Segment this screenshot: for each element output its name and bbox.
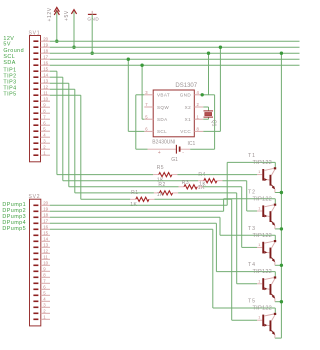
- SV2 pin 18 contact: [33, 217, 38, 219]
- SV2 pin 20 contact: [33, 205, 38, 207]
- SV1 pin 14 contact: [33, 76, 38, 78]
- wire X2 to crystal: [203, 106, 208, 108]
- svg-text:+: +: [158, 150, 161, 156]
- SV1 pin 7 contact: [33, 118, 38, 120]
- SV1 pin 6 stub: [41, 124, 51, 126]
- wire SDA drop: [141, 65, 143, 119]
- SV2 pin 7 stub: [41, 282, 50, 284]
- svg-text:19: 19: [43, 207, 48, 212]
- SV2 pin 3 stub: [41, 306, 50, 308]
- wire R2 right lead: [173, 192, 179, 194]
- svg-text:18: 18: [43, 49, 48, 54]
- wire R4 left lead row: [63, 180, 199, 182]
- crystal Q1: [204, 110, 214, 112]
- svg-text:11: 11: [43, 91, 48, 96]
- SV2 pin 9 stub: [41, 270, 50, 272]
- SV1 pin 5 stub: [41, 130, 51, 132]
- svg-text:14: 14: [43, 73, 48, 78]
- SV1 pin 17 contact: [33, 58, 38, 60]
- wire DPump5 vertical: [212, 229, 214, 308]
- wire IC GND pin net: [201, 94, 215, 96]
- svg-text:SV2: SV2: [29, 194, 41, 200]
- SV2 pin 9 contact: [33, 271, 38, 273]
- junction T1 emitter: [280, 191, 283, 194]
- svg-text:+5V: +5V: [64, 10, 70, 21]
- wire DPump5 horizontal: [50, 228, 213, 230]
- SV2 pin 8 contact: [33, 277, 38, 279]
- svg-text:16: 16: [43, 225, 48, 230]
- wire R5 row to T1 base: [177, 174, 257, 176]
- wire T2 base row: [247, 210, 257, 212]
- junction Ground rail at GND symbol: [91, 52, 94, 55]
- wire TIP2 vertical to resistor row: [62, 77, 64, 181]
- svg-text:TIP122: TIP122: [253, 233, 273, 239]
- SV2 pin 12 contact: [33, 253, 38, 255]
- svg-text:1: 1: [258, 207, 260, 211]
- wire SDA rail: [50, 64, 300, 66]
- svg-text:VBAT: VBAT: [157, 93, 170, 98]
- SV1 pin 2 contact: [33, 148, 38, 150]
- SV1 pin 18 stub: [41, 52, 51, 54]
- wire T5 emitter to bus: [275, 337, 282, 339]
- SV2 pin 7 contact: [33, 283, 38, 285]
- svg-text:TIP122: TIP122: [253, 196, 273, 202]
- SV2 pin 20 stub: [41, 204, 50, 206]
- svg-text:T3: T3: [248, 226, 256, 232]
- wire emitter ground bus: [280, 53, 282, 338]
- svg-text:G1: G1: [171, 157, 178, 163]
- svg-text:R4: R4: [198, 172, 205, 178]
- svg-text:12: 12: [43, 85, 48, 90]
- SV1 pin 13 contact: [33, 82, 38, 84]
- wire base staircase vertical T2: [246, 181, 248, 211]
- wire T2 collector row: [224, 198, 276, 200]
- SV1 pin 13 stub: [41, 82, 51, 84]
- wire base staircase vertical T3: [241, 187, 243, 248]
- SV1 pin 9 stub: [41, 106, 51, 108]
- SV2 pin 6 contact: [33, 289, 38, 291]
- wire TIP3 vertical to resistor row: [68, 83, 70, 187]
- wire T4 emitter to bus: [275, 301, 282, 303]
- svg-text:1: 1: [258, 170, 260, 174]
- junction Ground rail at bus: [280, 52, 283, 55]
- wire TIP5 horizontal: [50, 94, 81, 96]
- svg-text:13: 13: [43, 243, 48, 248]
- svg-text:GND: GND: [87, 16, 99, 21]
- svg-text:IC1: IC1: [188, 141, 196, 147]
- svg-text:VCC: VCC: [180, 129, 191, 134]
- SV1 pin 9 contact: [33, 106, 38, 108]
- SV1 pin 17 stub: [41, 58, 51, 60]
- SV1 pin 10 contact: [33, 100, 38, 102]
- svg-text:TIP122: TIP122: [253, 269, 273, 275]
- resistor R2: [159, 191, 172, 195]
- wire +12V to 12V rail: [56, 12, 58, 42]
- wire T3 base row: [242, 246, 257, 248]
- SV2 pin 16 stub: [41, 228, 50, 230]
- wire DPump1 horizontal: [50, 204, 227, 206]
- IC1 pin 3 VBAT stub: [144, 94, 153, 96]
- svg-text:T1: T1: [248, 153, 256, 159]
- SV2 pin 13 contact: [33, 247, 38, 249]
- junction T4 emitter: [280, 300, 283, 303]
- SV1 pin 20 contact: [33, 40, 38, 42]
- transistor T3 TIP122: [257, 246, 262, 248]
- IC1 pin 5 SDA stub: [144, 118, 153, 120]
- svg-text:SDA: SDA: [3, 60, 15, 66]
- wire TIP5 vertical to resistor row: [80, 95, 82, 199]
- svg-text:TIP122: TIP122: [253, 306, 273, 312]
- transistor T2 TIP122: [257, 210, 262, 212]
- junction Ground rail at IC drop: [207, 52, 210, 55]
- wire +5V to 5V rail: [73, 12, 75, 48]
- junction 5V rail at VCC drop: [219, 46, 222, 49]
- svg-text:B2430UNI: B2430UNI: [152, 139, 175, 145]
- wire R4 row to base staircase: [223, 180, 247, 182]
- SV1 pin 4 contact: [33, 136, 38, 138]
- SV1 pin 3 stub: [41, 142, 51, 144]
- wire SCL rail: [50, 58, 300, 60]
- svg-text:1: 1: [258, 316, 260, 320]
- svg-text:13: 13: [43, 79, 48, 84]
- svg-text:17: 17: [43, 55, 48, 60]
- connector SV1 box: [30, 36, 41, 162]
- wire T5 collector row: [213, 307, 275, 309]
- junction 12V rail: [55, 40, 58, 43]
- wire battery to IC GND pin: [214, 95, 216, 149]
- wire T1 emitter to bus: [275, 192, 282, 194]
- wire T5 collector drop: [274, 308, 276, 313]
- SV1 pin 19 contact: [33, 46, 38, 48]
- svg-text:20: 20: [43, 37, 48, 42]
- svg-text:+12V: +12V: [47, 7, 53, 21]
- svg-text:20: 20: [43, 201, 48, 206]
- svg-text:1: 1: [258, 279, 260, 283]
- svg-text:T4: T4: [248, 262, 256, 268]
- svg-text:11: 11: [43, 255, 48, 260]
- wire TIP1 vertical to resistor row: [56, 71, 58, 174]
- SV1 pin 15 stub: [41, 70, 51, 72]
- svg-text:1: 1: [258, 243, 260, 247]
- SV2 pin 15 stub: [41, 234, 50, 236]
- wire T1 collector row: [227, 161, 275, 163]
- supply +5V symbol: [71, 10, 76, 14]
- wire base staircase vertical T4: [236, 193, 238, 284]
- svg-text:GND: GND: [180, 93, 192, 98]
- wire TIP1 horizontal: [50, 70, 57, 72]
- wire Ground rail drop to IC GND: [208, 53, 210, 95]
- SV1 pin 6 contact: [33, 124, 38, 126]
- SV2 pin 15 contact: [33, 235, 38, 237]
- svg-text:SV1: SV1: [29, 30, 41, 36]
- SV1 pin 7 stub: [41, 118, 51, 120]
- wire T4 base row: [237, 283, 257, 285]
- SV1 pin 1 stub: [41, 154, 51, 156]
- SV1 pin 16 contact: [33, 64, 38, 66]
- SV1 pin 14 stub: [41, 76, 51, 78]
- svg-text:17: 17: [43, 219, 48, 224]
- wire R2 left lead row: [75, 192, 154, 194]
- SV2 pin 6 stub: [41, 288, 50, 290]
- resistor R3: [184, 185, 197, 189]
- IC1 pin 2 X2 stub: [194, 106, 203, 108]
- wire VCC to 5V rail: [203, 130, 220, 132]
- SV2 pin 1 contact: [33, 319, 38, 321]
- svg-text:TIP122: TIP122: [253, 160, 273, 166]
- SV2 pin 5 stub: [41, 294, 50, 296]
- SV2 pin 19 contact: [33, 211, 38, 213]
- wire DPump4 vertical: [215, 223, 217, 271]
- SV2 pin 17 stub: [41, 222, 50, 224]
- wire T3 emitter to bus: [275, 264, 282, 266]
- wire T1 collector drop: [274, 162, 276, 167]
- junction IC GND pin: [201, 93, 204, 96]
- svg-text:R3: R3: [182, 180, 189, 186]
- SV1 pin 2 stub: [41, 148, 51, 150]
- resistor R4: [204, 179, 217, 183]
- wire battery positive lead: [136, 148, 148, 150]
- svg-text:12: 12: [43, 249, 48, 254]
- wire T4 collector drop: [274, 272, 276, 277]
- SV2 pin 5 contact: [33, 295, 38, 297]
- wire TIP4 vertical to resistor row: [74, 89, 76, 193]
- wire R4 right lead: [217, 180, 223, 182]
- svg-text:15: 15: [43, 231, 48, 236]
- wire battery negative lead: [181, 148, 191, 150]
- SV1 pin 8 contact: [33, 112, 38, 114]
- SV2 pin 16 contact: [33, 229, 38, 231]
- wire R3 right lead: [197, 186, 203, 188]
- svg-text:16: 16: [43, 61, 48, 66]
- svg-text:Q1: Q1: [210, 120, 216, 127]
- wire DPump3 horizontal: [50, 216, 220, 218]
- SV2 pin 1 stub: [41, 318, 50, 320]
- SV2 pin 10 contact: [33, 265, 38, 267]
- SV2 pin 12 stub: [41, 252, 50, 254]
- SV1 pin 5 contact: [33, 130, 38, 132]
- wire T5 base row: [232, 319, 257, 321]
- svg-text:1K: 1K: [198, 185, 205, 191]
- wire VBAT to battery: [136, 94, 145, 96]
- wire DPump4 horizontal: [50, 222, 216, 224]
- wire GND symbol to Ground rail: [91, 14, 93, 53]
- wire R2 row to base staircase: [178, 192, 237, 194]
- SV2 pin 10 stub: [41, 264, 50, 266]
- wire T3 collector row: [220, 234, 275, 236]
- svg-text:TIP5: TIP5: [3, 91, 16, 97]
- SV2 pin 11 stub: [41, 258, 50, 260]
- svg-text:X2: X2: [185, 105, 191, 110]
- SV1 pin 19 stub: [41, 46, 51, 48]
- wire R1 right lead: [149, 198, 155, 200]
- transistor T5 TIP122: [257, 319, 262, 321]
- wire DPump3 vertical: [219, 217, 221, 235]
- svg-text:19: 19: [43, 43, 48, 48]
- wire T3 collector drop: [274, 235, 276, 240]
- SV2 pin 4 contact: [33, 301, 38, 303]
- svg-text:T2: T2: [248, 189, 256, 195]
- SV2 pin 2 stub: [41, 312, 50, 314]
- svg-text:R5: R5: [157, 165, 164, 171]
- wire Ground rail: [50, 52, 300, 54]
- junction SDA rail: [140, 63, 143, 66]
- SV2 pin 17 contact: [33, 223, 38, 225]
- junction SCL rail: [127, 58, 130, 61]
- wire R5 left lead row: [57, 174, 153, 176]
- svg-text:T5: T5: [248, 299, 256, 305]
- wire T4 collector row: [216, 271, 275, 273]
- wire R1 left lead row: [81, 198, 131, 200]
- wire T2 emitter to bus: [275, 228, 282, 230]
- wire R5 right lead: [172, 174, 178, 176]
- svg-text:SQW: SQW: [157, 105, 169, 110]
- wire TIP2 horizontal: [50, 76, 63, 78]
- wire DPump1 vertical: [226, 162, 228, 205]
- SV1 pin 12 stub: [41, 88, 51, 90]
- IC1 pin 4 GND stub: [194, 94, 203, 96]
- svg-text:14: 14: [43, 237, 48, 242]
- transistor T4 TIP122: [257, 283, 262, 285]
- svg-text:5V: 5V: [3, 41, 10, 47]
- SV1 pin 12 contact: [33, 88, 38, 90]
- ground symbol GND: [88, 13, 97, 15]
- SV1 pin 8 stub: [41, 112, 51, 114]
- SV1 pin 18 contact: [33, 52, 38, 54]
- resistor R1: [136, 197, 149, 201]
- wire R1 row to base staircase: [155, 198, 232, 200]
- wire SCL drop: [127, 59, 129, 131]
- SV1 pin 4 stub: [41, 136, 51, 138]
- SV1 pin 3 contact: [33, 142, 38, 144]
- svg-text:DPump5: DPump5: [2, 226, 26, 232]
- op-amp-style IC U1 DS1307 box: [153, 90, 194, 137]
- junction T2 emitter: [280, 227, 283, 230]
- wire 12V rail: [50, 40, 300, 42]
- SV1 pin 20 stub: [41, 40, 51, 42]
- junction T3 emitter: [280, 264, 283, 267]
- svg-text:R1: R1: [131, 190, 138, 196]
- svg-text:18: 18: [43, 213, 48, 218]
- IC1 pin 7 SQW stub: [144, 106, 153, 108]
- SV2 pin 13 stub: [41, 246, 50, 248]
- SV1 pin 10 stub: [41, 100, 51, 102]
- transistor T1 TIP122: [257, 174, 262, 176]
- SV2 pin 8 stub: [41, 276, 50, 278]
- SV2 pin 14 stub: [41, 240, 50, 242]
- SV1 pin 1 contact: [33, 154, 38, 156]
- SV2 pin 4 stub: [41, 300, 50, 302]
- wire T2 collector drop: [274, 199, 276, 204]
- wire DPump2 horizontal: [50, 210, 224, 212]
- wire TIP3 horizontal: [50, 82, 69, 84]
- svg-text:1K: 1K: [157, 192, 164, 198]
- SV2 pin 11 contact: [33, 259, 38, 261]
- IC1 pin 6 SCL stub: [144, 130, 153, 132]
- IC1 pin 1 X1 stub: [194, 118, 203, 120]
- svg-text:DS1307: DS1307: [175, 83, 197, 89]
- svg-text:R2: R2: [158, 182, 165, 188]
- svg-text:15: 15: [43, 67, 48, 72]
- connector SV2 box: [30, 199, 41, 326]
- wire R3 left lead row: [69, 186, 179, 188]
- supply +12V symbol: [54, 7, 59, 11]
- SV2 pin 14 contact: [33, 241, 38, 243]
- SV2 pin 19 stub: [41, 210, 50, 212]
- wire 5V rail: [50, 46, 300, 48]
- wire base staircase vertical T5: [231, 199, 233, 320]
- svg-text:10: 10: [43, 97, 48, 102]
- SV1 pin 11 stub: [41, 94, 51, 96]
- svg-text:10: 10: [43, 261, 48, 266]
- wire DPump2 vertical: [223, 199, 225, 212]
- SV2 pin 2 contact: [33, 313, 38, 315]
- wire R3 row to base staircase: [203, 186, 242, 188]
- wire X1 to crystal: [203, 118, 208, 120]
- svg-text:SCL: SCL: [157, 129, 167, 134]
- wire TIP4 horizontal: [50, 88, 75, 90]
- SV2 pin 18 stub: [41, 216, 50, 218]
- SV1 pin 11 contact: [33, 94, 38, 96]
- battery G1: [175, 145, 177, 154]
- SV1 pin 15 contact: [33, 70, 38, 72]
- svg-text:X1: X1: [185, 117, 191, 122]
- SV1 pin 16 stub: [41, 64, 51, 66]
- IC1 pin 8 VCC stub: [194, 130, 203, 132]
- resistor R5: [159, 173, 172, 177]
- svg-text:SDA: SDA: [157, 117, 168, 122]
- junction 5V rail: [72, 46, 75, 49]
- SV2 pin 3 contact: [33, 307, 38, 309]
